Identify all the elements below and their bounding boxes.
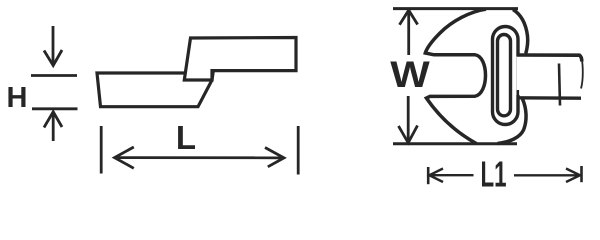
top view: W top extension line / flat top of head xyxy=(393,7,518,10)
dimension L1: right arrow xyxy=(514,169,580,183)
dimension H: top extension line xyxy=(31,74,77,77)
dimension L: double arrow line xyxy=(115,147,285,168)
dimension L1: left arrow xyxy=(429,169,473,183)
dimension W: down arrow xyxy=(399,96,418,143)
dimension H: up arrow xyxy=(44,112,62,141)
dimension L1: right tick xyxy=(580,166,583,182)
svg-text:H: H xyxy=(7,82,28,114)
dimension L1: left tick xyxy=(427,167,430,184)
top view: tang body (white fill over slot right edge) xyxy=(517,57,581,96)
top view: tang break line tick xyxy=(559,64,560,106)
side view: wrench head outline xyxy=(97,73,213,107)
top view: head outer outline upper-left curve and jaw xyxy=(425,9,486,143)
dimension H: bottom extension line xyxy=(32,107,78,110)
top view: tang right edge xyxy=(581,57,583,89)
top view: W bottom extension line / flat bottom of head xyxy=(393,142,517,145)
svg-text:L1: L1 xyxy=(480,155,506,195)
svg-text:L: L xyxy=(176,119,196,156)
top view: tang top edge xyxy=(517,55,582,62)
top view: head outer outline lower-right curve xyxy=(498,99,527,144)
dimension L: right extension line xyxy=(297,126,300,175)
svg-text:W: W xyxy=(390,54,430,95)
top view: tang bottom edge xyxy=(517,96,582,100)
top view: slot inner stadium xyxy=(498,35,511,116)
dimension W: up arrow xyxy=(400,10,418,55)
top view: slot outer stadium xyxy=(493,27,519,125)
top view: head outer outline upper-right curve xyxy=(513,10,528,54)
dimension L: left extension line xyxy=(100,126,103,174)
side view: tang outline xyxy=(184,38,296,81)
dimension H: down arrow xyxy=(44,26,62,66)
top view: slot right edge stub below tang xyxy=(517,90,519,97)
